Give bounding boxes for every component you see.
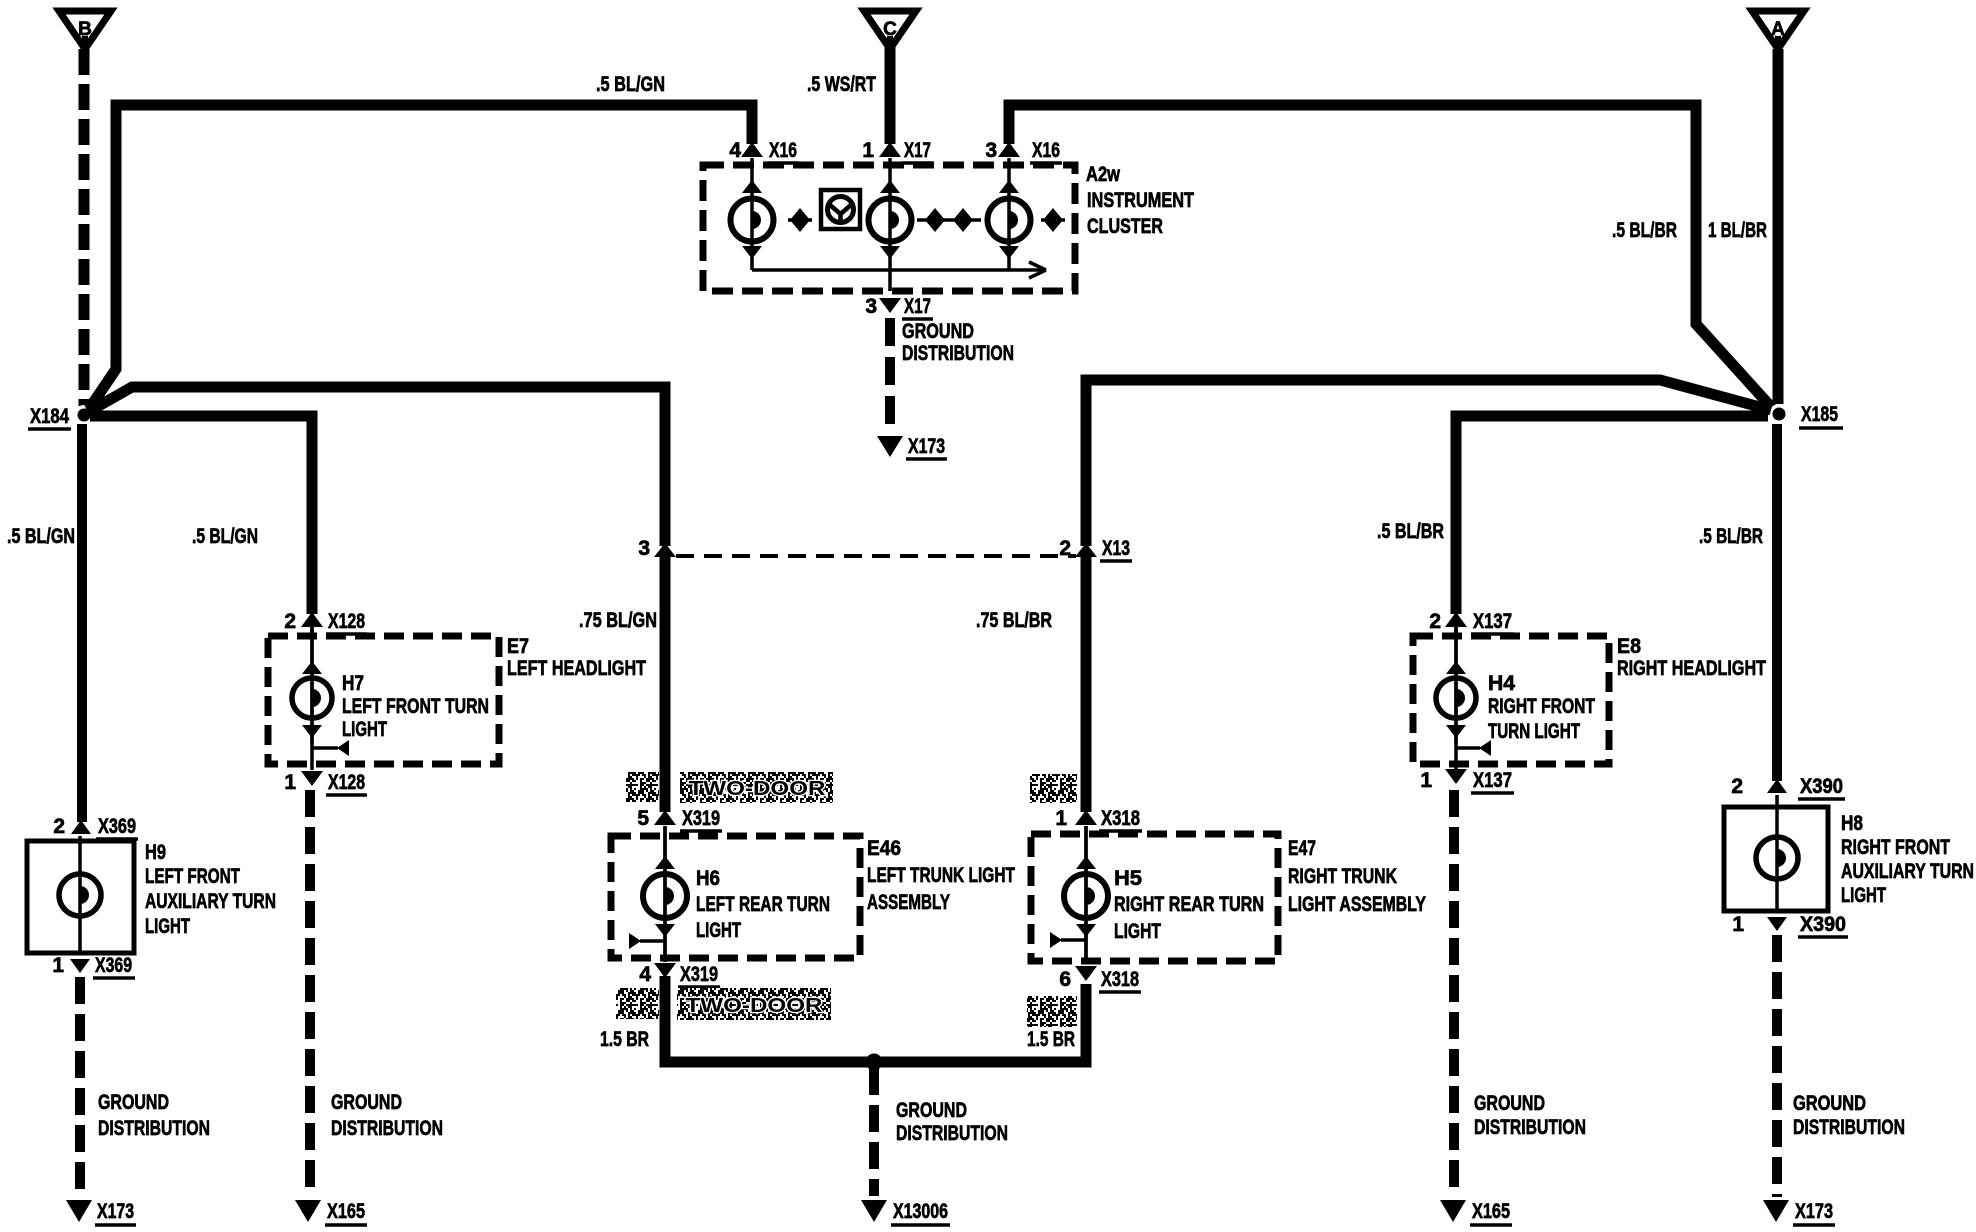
- svg-text:X319: X319: [682, 807, 720, 830]
- label ground distribution (far right): [1793, 1092, 1905, 1139]
- indicator lamp center (cluster): [869, 158, 912, 291]
- pin 2 X13 (right junction): [1059, 537, 1097, 560]
- svg-text:LEFT FRONT TURN: LEFT FRONT TURN: [342, 695, 489, 718]
- svg-text:RIGHT FRONT: RIGHT FRONT: [1841, 836, 1950, 859]
- ground X13006: [861, 1200, 887, 1222]
- svg-text:LIGHT ASSEMBLY: LIGHT ASSEMBLY: [1288, 893, 1426, 916]
- svg-text:4: 4: [729, 139, 741, 162]
- wire .75 BL/BR lower (junction to X318): [1081, 556, 1092, 812]
- svg-text:GROUND: GROUND: [896, 1099, 967, 1122]
- svg-text:1: 1: [862, 139, 874, 162]
- svg-text:A2w: A2w: [1086, 163, 1121, 186]
- wire .5 BL/GN (X184 to X128 branch): [90, 416, 312, 614]
- label H8 RIGHT FRONT AUXILIARY TURN LIGHT: [1841, 812, 1974, 907]
- lamp H6 left rear turn light: [629, 826, 687, 962]
- label X390 (pin 2): [1798, 775, 1845, 799]
- svg-text:RIGHT TRUNK: RIGHT TRUNK: [1288, 865, 1397, 888]
- svg-text:.5 WS/RT: .5 WS/RT: [807, 73, 876, 96]
- ground X173 (cluster): [877, 436, 903, 457]
- svg-text:TWO-DOOR: TWO-DOOR: [689, 778, 827, 800]
- svg-text:.5 BL/GN: .5 BL/GN: [192, 525, 258, 548]
- label H7 LEFT FRONT TURN LIGHT: [342, 672, 489, 741]
- label X173 (far right): [1793, 1200, 1835, 1225]
- dashed link X13: [676, 554, 1076, 558]
- svg-text:2: 2: [284, 610, 296, 633]
- ground X173 (far right): [1763, 1200, 1789, 1222]
- pin 1 X390: [1732, 913, 1787, 936]
- svg-text:.75 BL/BR: .75 BL/BR: [976, 609, 1052, 632]
- pin 2 X369: [53, 815, 91, 838]
- left headlight E7 dashed box: [268, 636, 499, 764]
- indicator lamp left (cluster): [731, 158, 774, 270]
- label ground distribution (cluster): [902, 320, 1014, 365]
- svg-text:X318: X318: [1101, 968, 1139, 991]
- svg-text:.5 BL/BR: .5 BL/BR: [1612, 219, 1677, 242]
- svg-text:CLUSTER: CLUSTER: [1087, 215, 1163, 238]
- svg-text:AUXILIARY TURN: AUXILIARY TURN: [145, 890, 276, 913]
- label ground distribution (center): [896, 1099, 1008, 1145]
- svg-text:.75 BL/GN: .75 BL/GN: [579, 609, 657, 632]
- pin 3 X16 (cluster right): [985, 139, 1020, 162]
- svg-text:1.5 BR: 1.5 BR: [1027, 1028, 1075, 1051]
- pin 5 X319: [637, 807, 676, 830]
- svg-text:LIGHT: LIGHT: [342, 718, 387, 741]
- label X16 (pin 4): [767, 139, 799, 163]
- svg-text:INSTRUMENT: INSTRUMENT: [1087, 189, 1194, 212]
- label E47 RIGHT TRUNK LIGHT ASSEMBLY: [1288, 837, 1426, 916]
- connector diamond right (cluster): [1041, 208, 1065, 232]
- svg-text:1: 1: [52, 954, 64, 977]
- pin 1 X17 (cluster center): [862, 139, 901, 162]
- node X184: [74, 405, 94, 425]
- label X184: [28, 405, 71, 429]
- svg-text:DISTRIBUTION: DISTRIBUTION: [902, 342, 1014, 365]
- connector diamond pair (cluster): [917, 208, 981, 232]
- instrument cluster A2w dashed box: [703, 165, 1075, 291]
- two-door marker small (left upper): [626, 772, 659, 802]
- svg-text:H7: H7: [342, 672, 364, 695]
- svg-text:.5 BL/GN: .5 BL/GN: [7, 525, 75, 548]
- svg-text:1.5 BR: 1.5 BR: [600, 1028, 649, 1051]
- svg-text:X17: X17: [904, 295, 931, 318]
- svg-text:1: 1: [284, 771, 296, 794]
- svg-text:DISTRIBUTION: DISTRIBUTION: [331, 1117, 443, 1140]
- label E7 LEFT HEADLIGHT: [507, 635, 646, 680]
- wire .5 BL/BR (A below X185 to H8): [1772, 424, 1782, 781]
- label X369 (pin 2): [96, 815, 138, 839]
- svg-text:E46: E46: [867, 837, 901, 860]
- connector triangle C: [864, 11, 916, 49]
- svg-text:H9: H9: [145, 841, 166, 864]
- svg-text:5: 5: [637, 807, 649, 830]
- two-door marker small (right lower): [1027, 996, 1077, 1027]
- svg-text:GROUND: GROUND: [902, 320, 974, 343]
- svg-text:E7: E7: [507, 635, 529, 658]
- svg-text:X318: X318: [1101, 807, 1140, 830]
- svg-text:LEFT TRUNK LIGHT: LEFT TRUNK LIGHT: [867, 864, 1015, 887]
- svg-text:X16: X16: [1032, 139, 1060, 162]
- svg-text:GROUND: GROUND: [331, 1091, 402, 1114]
- svg-text:X184: X184: [30, 405, 69, 428]
- pin 6 X318: [1059, 966, 1097, 991]
- pin 2 X137: [1429, 610, 1467, 633]
- lamp H9: [59, 836, 101, 953]
- svg-text:X369: X369: [95, 954, 132, 977]
- svg-text:DISTRIBUTION: DISTRIBUTION: [896, 1122, 1008, 1145]
- wire to ground X173 (cluster) dashed: [885, 318, 895, 434]
- label H4 RIGHT FRONT TURN LIGHT: [1488, 672, 1595, 743]
- label X137 (pin 1): [1471, 769, 1514, 793]
- svg-text:.5 BL/BR: .5 BL/BR: [1377, 520, 1444, 543]
- label H9 LEFT FRONT AUXILIARY TURN LIGHT: [145, 841, 276, 938]
- svg-text:X137: X137: [1473, 769, 1512, 792]
- wire .5 BL/GN top run (X184 to cluster pin 4): [89, 105, 752, 409]
- svg-text:.5 BL/GN: .5 BL/GN: [596, 73, 665, 96]
- svg-text:LIGHT: LIGHT: [1114, 920, 1161, 943]
- cluster internal wire with arrow: [752, 262, 1046, 278]
- pin 4 X319: [639, 963, 676, 986]
- label H5 RIGHT REAR TURN LIGHT: [1114, 867, 1264, 943]
- svg-text:X17: X17: [904, 139, 931, 162]
- svg-text:4: 4: [639, 963, 651, 986]
- svg-text:DISTRIBUTION: DISTRIBUTION: [1793, 1116, 1905, 1139]
- ground X165 (right): [1440, 1200, 1466, 1222]
- wire B dashed (to X184): [79, 49, 90, 406]
- label X128 (pin 1): [326, 771, 367, 795]
- svg-text:TWO-DOOR: TWO-DOOR: [686, 995, 824, 1017]
- lamp H5 right rear turn light: [1050, 826, 1108, 962]
- label X13: [1100, 537, 1132, 561]
- svg-text:H6: H6: [696, 867, 720, 890]
- hazard switch symbol: [821, 190, 860, 229]
- right headlight E8 dashed box: [1413, 636, 1609, 764]
- two-door marker band (left upper): [680, 772, 833, 803]
- label A2w INSTRUMENT CLUSTER: [1086, 163, 1194, 238]
- svg-text:A: A: [1771, 19, 1785, 40]
- svg-text:X128: X128: [328, 771, 365, 794]
- svg-text:RIGHT REAR TURN: RIGHT REAR TURN: [1114, 893, 1264, 916]
- label X173 (cluster): [906, 435, 947, 459]
- label X173 (far left): [95, 1200, 136, 1225]
- svg-text:C: C: [883, 19, 897, 40]
- svg-text:LIGHT: LIGHT: [1841, 884, 1886, 907]
- wire X128 to ground dashed: [305, 790, 315, 1197]
- svg-text:H4: H4: [1488, 672, 1515, 695]
- svg-text:LIGHT: LIGHT: [696, 919, 741, 942]
- svg-text:1: 1: [1732, 913, 1744, 936]
- svg-text:6: 6: [1059, 968, 1071, 991]
- pin 1 X318: [1055, 807, 1097, 830]
- label X165 (left): [325, 1200, 367, 1225]
- svg-text:3: 3: [865, 295, 877, 318]
- svg-text:GROUND: GROUND: [1474, 1092, 1545, 1115]
- pin 3 X17 (cluster bottom): [865, 295, 901, 318]
- label X318 (pin 1): [1099, 807, 1142, 831]
- label X165 (right): [1470, 1200, 1512, 1225]
- lamp H4 right front turn light: [1436, 627, 1491, 770]
- svg-text:X13: X13: [1102, 537, 1130, 560]
- svg-text:LEFT REAR TURN: LEFT REAR TURN: [696, 893, 830, 916]
- junction X13006 node: [866, 1054, 883, 1071]
- wire X369 to ground dashed: [75, 977, 85, 1197]
- left trunk light assembly E46 dashed box: [611, 836, 860, 958]
- svg-text:B: B: [78, 19, 92, 40]
- label H6 LEFT REAR TURN LIGHT: [696, 867, 830, 942]
- svg-text:1: 1: [1055, 807, 1067, 830]
- right trunk light assembly E47 dashed box: [1031, 834, 1278, 961]
- wire .75 BL/GN (X184 to junction 3): [88, 387, 665, 546]
- label X17 (pin 1): [902, 139, 933, 163]
- lamp H7 left front turn light: [292, 627, 349, 770]
- label X13006: [891, 1200, 950, 1225]
- svg-text:2: 2: [1731, 775, 1743, 798]
- two-door marker small (left lower): [616, 988, 659, 1019]
- pin 2 X128: [284, 610, 323, 633]
- svg-text:GROUND: GROUND: [1793, 1092, 1866, 1115]
- wire X390 to ground dashed: [1772, 935, 1782, 1197]
- pin 4 X16 (cluster left): [729, 139, 763, 162]
- svg-text:LIGHT: LIGHT: [145, 915, 190, 938]
- label X318 (pin 6): [1099, 968, 1141, 992]
- indicator lamp right (cluster): [988, 158, 1031, 270]
- left front auxiliary turn light H9 box: [27, 841, 134, 953]
- svg-text:1 BL/BR: 1 BL/BR: [1708, 219, 1767, 242]
- svg-text:2: 2: [1059, 537, 1071, 560]
- svg-text:GROUND: GROUND: [98, 1091, 169, 1114]
- svg-text:X128: X128: [328, 610, 365, 633]
- svg-text:TURN LIGHT: TURN LIGHT: [1488, 720, 1580, 743]
- pin 1 X128: [284, 771, 323, 794]
- pin 2 X390: [1731, 775, 1787, 798]
- label ground distribution (left): [331, 1091, 443, 1140]
- pin 1 X137: [1420, 769, 1467, 792]
- svg-text:LEFT FRONT: LEFT FRONT: [145, 865, 240, 888]
- svg-text:X16: X16: [769, 139, 797, 162]
- label X128 (pin 2): [326, 610, 367, 634]
- label ground distribution (right): [1474, 1092, 1586, 1139]
- svg-text:2: 2: [53, 815, 65, 838]
- label X319 (pin 4): [678, 963, 720, 987]
- right front auxiliary turn light H8 box: [1724, 807, 1828, 911]
- svg-text:X390: X390: [1800, 775, 1843, 798]
- svg-text:1: 1: [1420, 769, 1432, 792]
- label E46 LEFT TRUNK LIGHT ASSEMBLY: [867, 837, 1015, 914]
- wire to ground X13006 dashed: [869, 1068, 879, 1196]
- wire .5 BL/BR (X185 to X137 branch): [1456, 416, 1768, 614]
- wire .5 WS/RT (C to cluster pin 1): [885, 47, 896, 144]
- svg-text:X173: X173: [97, 1200, 134, 1223]
- svg-text:3: 3: [985, 139, 997, 162]
- svg-text:X13006: X13006: [893, 1200, 948, 1223]
- wire A (1 BL/BR, triangle A to X185): [1773, 49, 1784, 404]
- svg-text:2: 2: [1429, 610, 1441, 633]
- svg-text:LEFT HEADLIGHT: LEFT HEADLIGHT: [507, 657, 646, 680]
- svg-text:AUXILIARY TURN: AUXILIARY TURN: [1841, 860, 1974, 883]
- svg-text:DISTRIBUTION: DISTRIBUTION: [1474, 1116, 1586, 1139]
- node X185: [1769, 404, 1789, 424]
- wire .5 BL/BR top run (cluster pin 3 to X185): [1009, 105, 1772, 408]
- wire X137 to ground dashed: [1449, 790, 1459, 1197]
- svg-text:E47: E47: [1288, 837, 1316, 860]
- two-door marker small (right upper): [1030, 774, 1077, 803]
- svg-text:X165: X165: [1472, 1200, 1510, 1223]
- svg-text:X173: X173: [1795, 1200, 1833, 1223]
- label X319 (pin 5): [680, 807, 722, 831]
- svg-text:X319: X319: [680, 963, 718, 986]
- label X16 (pin 3): [1030, 139, 1062, 163]
- label X137 (pin 2): [1471, 610, 1514, 634]
- wire .75 BL/BR (junction 2 to X185): [1086, 380, 1771, 546]
- label ground distribution (far left): [98, 1091, 210, 1140]
- label X17 (pin 3 bottom): [902, 295, 933, 319]
- svg-text:RIGHT HEADLIGHT: RIGHT HEADLIGHT: [1617, 657, 1766, 680]
- svg-text:X185: X185: [1801, 403, 1838, 426]
- svg-text:X137: X137: [1473, 610, 1512, 633]
- wire .75 BL/GN lower (junction to X319): [660, 556, 671, 812]
- connector diamond 1 (cluster): [788, 208, 812, 232]
- svg-text:DISTRIBUTION: DISTRIBUTION: [98, 1117, 210, 1140]
- lamp H8: [1756, 795, 1798, 911]
- ground X173 (far left): [66, 1200, 92, 1222]
- svg-text:X390: X390: [1800, 913, 1846, 936]
- two-door marker band (left lower): [677, 988, 831, 1020]
- svg-text:.5 BL/BR: .5 BL/BR: [1699, 525, 1763, 548]
- label X369 (pin 1): [93, 954, 135, 978]
- svg-text:3: 3: [638, 537, 650, 560]
- svg-text:H5: H5: [1114, 867, 1142, 890]
- pin 1 X369: [52, 954, 90, 977]
- svg-text:ASSEMBLY: ASSEMBLY: [867, 891, 950, 914]
- svg-text:RIGHT FRONT: RIGHT FRONT: [1488, 695, 1595, 718]
- pin 3 (X13 left junction): [638, 537, 676, 560]
- label X390 (pin 1): [1798, 913, 1848, 937]
- svg-text:H8: H8: [1841, 812, 1863, 835]
- svg-text:X165: X165: [327, 1200, 365, 1223]
- svg-text:E8: E8: [1617, 635, 1641, 658]
- connector triangle B: [59, 11, 111, 49]
- wire 1.5 BR (X319/X318 to ground junction): [665, 976, 1086, 1062]
- svg-text:X369: X369: [98, 815, 136, 838]
- wire .5 BL/GN (B below X184 to H9): [77, 424, 87, 822]
- ground X165 (left): [295, 1200, 321, 1222]
- connector triangle A: [1752, 11, 1804, 49]
- label E8 RIGHT HEADLIGHT: [1617, 635, 1766, 680]
- label X185: [1799, 403, 1843, 428]
- svg-text:X173: X173: [908, 435, 945, 458]
